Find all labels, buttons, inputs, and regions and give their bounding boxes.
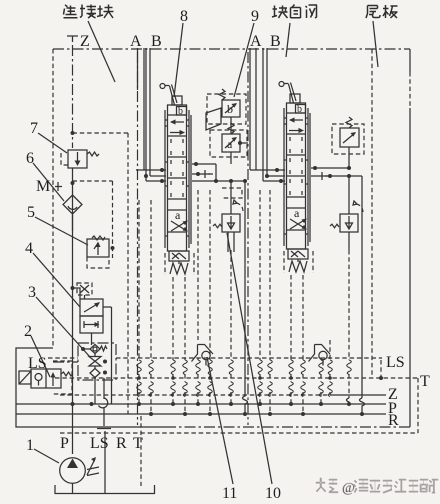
wire diamond stub <box>72 215 74 231</box>
svg-text:LS: LS <box>90 435 109 452</box>
end cap spring V1 <box>169 251 189 261</box>
node Z port top <box>67 36 78 42</box>
label 尾板 (tail plate) <box>366 5 398 18</box>
node bus junction dots <box>137 402 141 406</box>
svg-text:3: 3 <box>28 284 36 301</box>
tank drain with curl <box>97 378 111 494</box>
wire LS bus dashed <box>48 357 382 359</box>
wire drop x198 <box>197 190 199 404</box>
wire mid solid vertical <box>244 181 246 360</box>
wire V2 left ports <box>250 170 285 181</box>
node dot <box>90 402 94 406</box>
flow control block 3 <box>53 343 116 380</box>
wire drop x173 <box>172 277 174 404</box>
end cap spring V2 <box>288 249 308 259</box>
svg-text:R: R <box>116 435 127 452</box>
wire right solid vertical <box>361 176 363 398</box>
wire dashed link mid <box>73 180 113 182</box>
valve body V2 <box>287 103 306 249</box>
compensator valve (item 10) <box>213 188 243 232</box>
wire V1 right ports row3 <box>192 180 245 182</box>
wire pointer from 9 <box>234 23 254 97</box>
wire drop x291 <box>290 275 292 404</box>
spool valve V1 (item 8) <box>160 84 194 276</box>
valve R2 right <box>330 201 363 232</box>
wire P jog mid <box>243 360 248 414</box>
lever handle V1 <box>160 84 165 89</box>
svg-text:M: M <box>36 178 50 195</box>
node left block <box>16 348 165 427</box>
wire T drain dashed <box>140 416 142 486</box>
wire bottom border <box>165 426 410 428</box>
wire drop x139 <box>138 200 140 404</box>
label 换向阀 (directional valve) <box>272 5 317 19</box>
solenoid valve 2 <box>19 361 73 394</box>
wire pointer from 5 <box>35 217 88 245</box>
wire Z pilot dashdot vertical <box>72 45 74 148</box>
wire pointer from 6 <box>33 163 64 201</box>
node junction dots on riser <box>71 181 75 185</box>
wire P riser vertical <box>72 168 74 454</box>
wire drop x321 <box>320 358 322 404</box>
wire V1 left ports <box>136 170 166 181</box>
svg-text:b: b <box>178 106 183 117</box>
svg-text:11: 11 <box>222 485 237 502</box>
node plug tick right <box>322 172 330 180</box>
check valve CV2 <box>309 345 331 366</box>
wire partition 2 dashdot <box>247 52 249 425</box>
wire pointer from 11 <box>207 357 233 484</box>
wire top border <box>53 48 410 50</box>
node plug tick <box>205 170 213 178</box>
node dot <box>71 131 75 135</box>
svg-text:LS: LS <box>386 354 405 371</box>
node bottom bracket <box>55 485 155 494</box>
svg-text:T: T <box>420 373 430 390</box>
svg-text:R: R <box>388 412 399 429</box>
wire V1 right ports row2 <box>192 173 210 175</box>
wire R2 drop <box>348 250 350 398</box>
node M tick <box>55 182 62 191</box>
wire dashed vertical x128 <box>127 133 129 414</box>
wire right border <box>409 49 411 427</box>
wire comp10 vertical <box>228 181 234 252</box>
wire B1 port lines <box>146 48 150 181</box>
pilot drop lines with damper squiggles <box>137 190 333 414</box>
wire LS right drop <box>380 360 382 376</box>
wire pointer from 10 <box>227 233 272 484</box>
wire pointer from 1 <box>34 449 59 463</box>
svg-text:2: 2 <box>24 323 32 340</box>
wire pointer from 3 <box>36 297 90 357</box>
svg-text:4: 4 <box>25 240 33 257</box>
wire T bus dashed <box>55 377 418 379</box>
svg-text:6: 6 <box>26 150 34 167</box>
wire comp10 drop <box>230 250 232 404</box>
wire R jog right <box>360 398 365 414</box>
wire V1 right ports row1 <box>192 164 216 181</box>
wire T-box right dashed <box>417 378 419 433</box>
wire drop x151 <box>150 200 152 414</box>
wire drop x330 <box>329 340 331 395</box>
svg-text:Z: Z <box>80 33 90 50</box>
wire drop x185 <box>184 277 186 414</box>
wire drop x210 <box>209 190 211 414</box>
check valve CV1 (item 11) <box>192 345 214 366</box>
spool valve V2 <box>279 82 313 274</box>
node dot <box>111 246 115 250</box>
valve body V1 <box>168 105 187 251</box>
svg-text:5: 5 <box>27 204 35 221</box>
svg-text:10: 10 <box>265 485 281 502</box>
svg-text:B: B <box>151 33 162 50</box>
wire A2 port lines <box>250 48 256 170</box>
pilot valve a <box>210 123 247 157</box>
wire partition 1 dashdot <box>137 52 139 425</box>
check valve 6 diamond <box>63 195 82 214</box>
orifice above valve 4 <box>77 283 92 299</box>
wire V2 right ports row2 <box>311 175 362 177</box>
svg-text:P: P <box>60 435 69 452</box>
wire A1 port line <box>138 48 145 170</box>
pump P1 <box>60 457 99 483</box>
wire R2 verticals <box>348 176 350 250</box>
watermark 头条@液压马达工程师 <box>316 478 438 496</box>
wire V2 right ports row1 <box>311 167 349 169</box>
valve 5 relief <box>87 236 109 268</box>
wire left border dashed <box>52 49 54 348</box>
svg-text:a: a <box>294 206 300 220</box>
svg-text:7: 7 <box>30 120 38 137</box>
valve 7 reducing valve <box>61 150 99 168</box>
relief valve R1 right <box>332 117 364 168</box>
wire drop x270 <box>269 190 271 414</box>
wire P bus <box>16 403 386 405</box>
wire pointer from 7 <box>38 133 67 153</box>
wire pointer from 4 <box>33 253 80 307</box>
node T bus dots <box>137 376 141 380</box>
svg-text:A: A <box>130 33 142 50</box>
wire dashed link top <box>73 132 129 134</box>
wire pointer from 8 <box>174 23 183 97</box>
wire R bus <box>16 413 386 415</box>
wire pointer from 2 <box>31 336 50 377</box>
wire pointer from 尾板 <box>373 21 378 67</box>
svg-text:a: a <box>175 208 181 222</box>
svg-text:B: B <box>270 33 281 50</box>
wire from 4 to 3 <box>91 333 93 345</box>
label 连接块 (connector block) <box>64 5 114 19</box>
wire P jog right <box>347 398 350 404</box>
svg-text:8: 8 <box>180 8 188 25</box>
wire pointer from 连接块 <box>88 21 115 82</box>
lever handle V2 <box>279 82 284 87</box>
wire dashed vertical x112 <box>112 181 114 258</box>
wire partition 3 dashed <box>371 49 373 378</box>
pilot valve b (item 9) <box>206 89 246 130</box>
svg-text:9: 9 <box>251 8 259 25</box>
svg-text:b: b <box>297 104 302 115</box>
wire outer dashed bottom <box>60 432 418 434</box>
svg-text:1: 1 <box>26 437 34 454</box>
wire drop x260 <box>259 190 261 404</box>
wire pilot links <box>230 117 232 164</box>
wire pump bottom <box>72 484 74 494</box>
svg-text:A: A <box>250 33 262 50</box>
svg-text:@: @ <box>342 481 355 496</box>
wire drop x303 <box>302 275 304 414</box>
wire pointer from 换向阀 <box>286 23 290 57</box>
wire B2 port lines <box>263 48 267 181</box>
wire Z bus <box>60 394 330 396</box>
valve 4 two-position <box>73 288 112 404</box>
wire from 3 down to P bus <box>94 378 96 405</box>
